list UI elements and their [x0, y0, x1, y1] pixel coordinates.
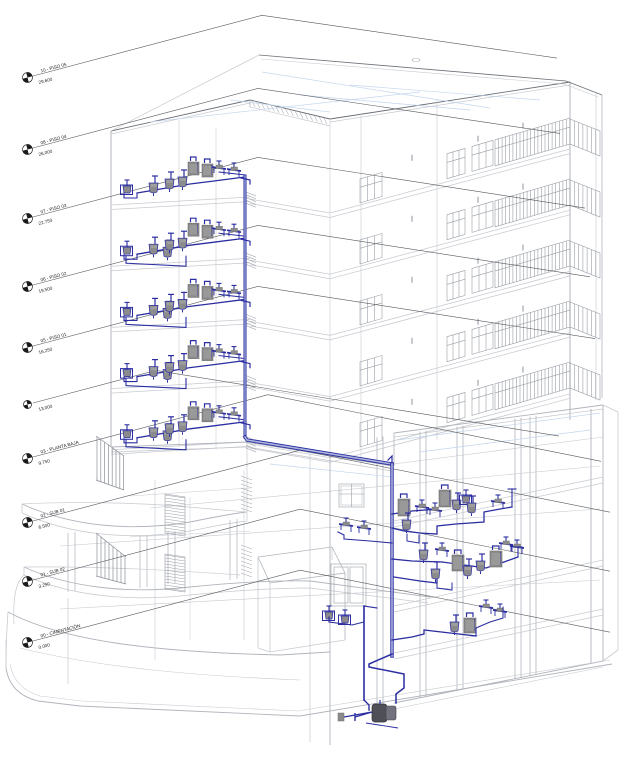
toilet: [170, 417, 172, 424]
sink counter: [218, 222, 220, 228]
boiler: [442, 485, 449, 489]
wall sink: [126, 364, 128, 370]
interior wall horizontals: [130, 488, 250, 496]
podium bottom edge: [394, 661, 603, 703]
toilet: [183, 292, 185, 299]
left terrace slab 2 (curved): [24, 567, 430, 597]
toilet: [424, 543, 426, 550]
boiler: [191, 218, 197, 222]
boiler: [205, 404, 211, 408]
bottom zigzag pipes: [369, 654, 404, 703]
sink counter: [218, 345, 220, 351]
step parapet hatch: [252, 101, 327, 124]
interior hatched window 2: [165, 554, 185, 592]
toilet: [183, 170, 185, 177]
toilet: [457, 493, 459, 500]
basement riser: [390, 464, 393, 656]
cut wall hatches at riser: [246, 192, 256, 452]
floor cluster 2: [137, 238, 245, 254]
podium terrace inner floor line: [394, 437, 603, 464]
roof small vent mark: [412, 59, 420, 62]
sink counter: [233, 224, 235, 230]
boiler: [467, 613, 474, 617]
boiler: [191, 279, 197, 283]
podium window: [339, 484, 364, 507]
interior slab lines across basement: [150, 466, 600, 508]
toilet: [168, 240, 170, 247]
toilet: [154, 176, 156, 183]
wall sink: [126, 241, 128, 247]
building wireframe: [111, 55, 602, 465]
sink counter: [345, 518, 347, 524]
facade windows: [360, 118, 600, 447]
wall sink: [126, 425, 128, 431]
tower floor slabs left wing: [111, 197, 250, 205]
pump: [372, 704, 387, 722]
podium right return face: [603, 405, 618, 412]
boiler: [205, 343, 211, 347]
wing face joints: [178, 120, 180, 447]
sink counter: [441, 543, 443, 549]
roof drainage gridlines: [262, 72, 490, 108]
boiler: [493, 546, 500, 550]
sink counter: [218, 283, 220, 289]
window row 4: [360, 356, 382, 386]
wall sink: [344, 610, 346, 616]
stair balustrade lower + glazing: [96, 533, 126, 584]
window row 3: [360, 295, 382, 325]
tower left edge: [110, 131, 112, 446]
toilet: [168, 363, 170, 370]
wall sink: [328, 606, 330, 612]
toilet: [481, 554, 483, 561]
sink counter: [233, 163, 235, 169]
wall sink: [465, 490, 467, 496]
boiler: [455, 550, 462, 554]
podium columns: [376, 437, 378, 706]
floor cluster 5: [137, 422, 245, 438]
columns under slab 1: [67, 533, 69, 592]
sink counter: [421, 500, 423, 506]
toilet: [170, 172, 172, 179]
toilet: [168, 424, 170, 431]
sink counter: [233, 285, 235, 291]
boiler: [191, 341, 197, 345]
main facade parapet: [330, 82, 570, 119]
boiler: [205, 281, 211, 285]
boiler: [191, 157, 197, 161]
SUB 01 cluster: [392, 509, 438, 514]
hatched panel 2: [241, 545, 252, 549]
riser floor jogs: [241, 178, 250, 184]
terrace bulkhead hut: [258, 547, 345, 583]
left terrace slab 1 (curved): [22, 504, 247, 527]
podium door: [331, 564, 366, 606]
window row 1: [360, 173, 382, 203]
level 3.250: [33, 509, 610, 580]
basement mass left edge: [14, 575, 24, 624]
SUB 02 cluster: [392, 559, 442, 562]
interior hatched window 1: [165, 494, 185, 536]
sink counter: [218, 406, 220, 412]
sink counter: [218, 161, 220, 167]
level 16.250: [33, 286, 595, 346]
sink counter: [516, 540, 518, 546]
main riser pipe: [244, 176, 247, 437]
transfer pipe to basement: [245, 437, 392, 464]
boiler: [205, 220, 211, 224]
toilet: [154, 237, 156, 244]
toilet: [183, 415, 185, 422]
toilet: [170, 294, 172, 301]
sink counter: [233, 408, 235, 414]
wall sink: [126, 180, 128, 186]
podium beams: [394, 477, 603, 521]
podium left face (under tower, x 247-394): [246, 442, 248, 520]
boiler: [191, 402, 197, 406]
left riser to pump: [364, 606, 377, 608]
toilet: [183, 354, 185, 361]
wing step edge: [250, 100, 330, 119]
roof back parapet edge: [259, 55, 566, 81]
window row 2: [360, 234, 382, 264]
level 26.000: [33, 88, 560, 148]
toilet: [183, 231, 185, 238]
foundation slab interior curve: [20, 648, 300, 680]
floor cluster 4: [137, 361, 245, 377]
wall sink: [126, 302, 128, 308]
ground mass bottom: [6, 664, 612, 716]
toilet: [468, 559, 470, 566]
toilet: [436, 562, 438, 569]
boiler: [401, 494, 408, 498]
podium left terrace edge (pipe route): [111, 442, 392, 466]
toilet: [170, 356, 172, 363]
toilet: [472, 496, 474, 503]
hatched panel 1: [241, 476, 252, 577]
level 19.500: [33, 225, 590, 285]
sink counter: [497, 495, 499, 501]
toilet: [455, 615, 457, 622]
podium right corner: [602, 405, 604, 661]
toilet: [170, 233, 172, 240]
sink counter: [485, 600, 487, 606]
sink counter: [233, 347, 235, 353]
window row 5: [360, 417, 382, 447]
facade joints: [329, 119, 331, 460]
floor cluster 1: [137, 177, 245, 193]
toilet: [168, 301, 170, 308]
level 9.750: [33, 395, 601, 462]
foundation level cluster: [392, 630, 476, 640]
floor cluster 3: [137, 299, 245, 315]
toilet: [154, 298, 156, 305]
sink counter: [434, 503, 436, 509]
sink counter: [505, 537, 507, 543]
level 13.000: [33, 370, 559, 436]
level 0.000: [33, 570, 610, 641]
tower left wing parapet: [111, 100, 250, 131]
toilet: [154, 360, 156, 367]
tower right edge: [569, 82, 571, 420]
sink counter: [499, 604, 501, 610]
sink counter: [363, 521, 365, 527]
level 22.750: [33, 157, 585, 217]
toilet: [407, 513, 409, 520]
podium roof gridline: [270, 464, 392, 477]
level 29.600: [33, 15, 557, 76]
step face floor connectors: [250, 199, 330, 213]
podium roof inner edges: [247, 447, 392, 471]
ground left rounded corner upper edge: [5, 640, 7, 668]
tower side parapet around right corner: [566, 81, 602, 95]
level 6.500: [33, 450, 610, 521]
toilet: [154, 421, 156, 428]
boiler: [205, 159, 211, 163]
stair balustrade upper: [96, 436, 124, 490]
roof left back edge: [111, 55, 259, 131]
ground slab curve: [8, 612, 330, 655]
tower floor slabs main facade: [330, 149, 570, 213]
podium right block parapet: [394, 405, 603, 433]
tower right back edge: [601, 95, 603, 398]
podium: [6, 192, 618, 745]
interior wall verticals: [243, 470, 245, 640]
